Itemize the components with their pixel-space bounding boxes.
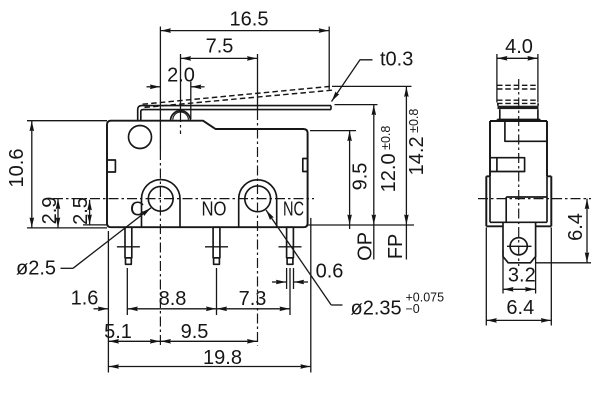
extension 10.6 bottom (27, 227, 107, 229)
side: flange inner walls (490, 176, 547, 222)
svg-text:ø2.35: ø2.35 (351, 298, 402, 320)
rivet C inner circle (148, 186, 173, 211)
rivet NC lobe (239, 180, 277, 227)
plunger centerline / 7.5 extension (180, 54, 182, 112)
dimension 0.6 extension lines (286, 268, 288, 289)
leader t0.3 (332, 60, 373, 102)
side: internal step top right (505, 121, 547, 141)
dimension 16.5 (160, 30, 329, 32)
pin NC tick (279, 246, 302, 248)
side: vertical centerline (518, 79, 520, 266)
centerline vertical through rivet NC (257, 54, 259, 110)
lever arm (solid, operating position) (138, 106, 331, 121)
dimension 2.9 (57, 199, 59, 228)
side: horizontal centerline (478, 198, 591, 200)
horizontal centerline through rivets (53, 198, 314, 200)
dimension 7.5 (181, 57, 258, 59)
side: terminal tab (503, 222, 536, 262)
pin C tick (117, 246, 140, 248)
extension line bottom right (308, 224, 414, 226)
leader diameter 2.5 (73, 208, 151, 268)
dimension 7.3 (217, 308, 291, 310)
dimension 14.2 +-0.8 (FP) (405, 86, 407, 225)
svg-text:6.4: 6.4 (506, 297, 534, 319)
side dimension 6.4 (bottom) (485, 228, 487, 326)
side dimension 4.0 (496, 54, 498, 103)
centerline vertical through plunger / rivet C (159, 27, 161, 151)
svg-text:8.8: 8.8 (159, 288, 187, 310)
side dimension 6.4 (right) (536, 262, 591, 264)
svg-text:t0.3: t0.3 (380, 49, 413, 71)
rivet C lobe (142, 180, 181, 228)
side: body upper block (490, 121, 547, 176)
dimension 2.5 (89, 200, 91, 225)
svg-text:OP: OP (355, 232, 377, 261)
mounting hole (129, 126, 152, 149)
dimension 9.5 (bottom) (160, 340, 257, 342)
side: lever dashed band (lower level) (497, 99, 539, 101)
dimension 8.8 (127, 308, 216, 310)
terminal pin NO (213, 227, 220, 264)
svg-text:10.6: 10.6 (6, 149, 28, 188)
svg-text:7.3: 7.3 (239, 288, 267, 310)
svg-text:9.5: 9.5 (181, 321, 209, 343)
extension 2.5 bottom (83, 224, 107, 226)
extension pin NC (289, 268, 291, 315)
side: internal pocket left (490, 158, 525, 172)
pin NO tick (205, 246, 228, 248)
side: tab hole crossline (507, 245, 532, 247)
svg-text:1.6: 1.6 (71, 288, 99, 310)
dimension 19.8 (108, 366, 310, 368)
svg-text:16.5: 16.5 (230, 9, 269, 31)
dimension 1.6 (94, 308, 109, 310)
svg-text:5.1: 5.1 (104, 321, 132, 343)
svg-text:2.0: 2.0 (167, 65, 195, 87)
dimension 10.6 (31, 121, 33, 228)
svg-text:FP: FP (385, 234, 407, 260)
left edge notch (107, 160, 115, 172)
side dimension 3.2 (502, 250, 504, 294)
lever arm free position (dashed) (143, 86, 333, 104)
side: internal step bottom right (506, 197, 547, 222)
extension line 12.0 top (335, 104, 378, 106)
extension body left bottom (107, 231, 109, 373)
plunger dome (171, 111, 191, 121)
leader diameter 2.35 (266, 210, 331, 305)
dimension 12.0 +-0.8 (OP) (373, 105, 375, 225)
svg-text:0.6: 0.6 (316, 261, 344, 283)
dimension 2.0 (147, 86, 161, 88)
plunger dome inner arc (173, 112, 189, 120)
side: plunger cap (500, 109, 538, 119)
svg-text:NO: NO (202, 199, 227, 221)
side: bezel step (497, 119, 540, 121)
side: lever edge (solid thick) (498, 106, 539, 109)
svg-text:2.5: 2.5 (70, 197, 92, 225)
16.5 right extension (328, 27, 330, 90)
dimension 5.1 (108, 340, 160, 342)
extension pin NO (216, 268, 218, 315)
side: lever free position dashed band (tip level) (497, 84, 539, 86)
right edge notch (303, 159, 307, 172)
svg-text:4.0: 4.0 (505, 36, 533, 58)
switch body outline (front view) (107, 121, 308, 228)
extension 10.6 top (27, 120, 107, 122)
svg-text:9.5: 9.5 (350, 163, 372, 191)
svg-text:ø2.5: ø2.5 (16, 258, 56, 280)
svg-text:7.5: 7.5 (206, 36, 234, 58)
svg-text:C: C (130, 199, 144, 221)
rivet NC inner circle (245, 186, 271, 212)
extension line 9.5 top (310, 130, 356, 132)
extension line 14.2 top (332, 85, 412, 87)
extension body right bottom (310, 218, 312, 373)
extension pin C (126, 268, 128, 315)
svg-text:3.2: 3.2 (508, 265, 536, 287)
side: tab hole (510, 238, 527, 255)
svg-text:NC: NC (283, 199, 304, 221)
svg-text:6.4: 6.4 (565, 213, 587, 241)
svg-text:19.8: 19.8 (203, 347, 242, 369)
svg-text:2.9: 2.9 (39, 197, 61, 225)
side: flange outer (486, 176, 551, 226)
2.0 right extension (190, 82, 192, 120)
dimension 9.5 (right) (349, 131, 351, 225)
dimension 0.6 (272, 281, 286, 283)
terminal pin NC (287, 227, 294, 264)
svg-text:−0: −0 (406, 302, 420, 316)
terminal pin C (125, 227, 132, 264)
